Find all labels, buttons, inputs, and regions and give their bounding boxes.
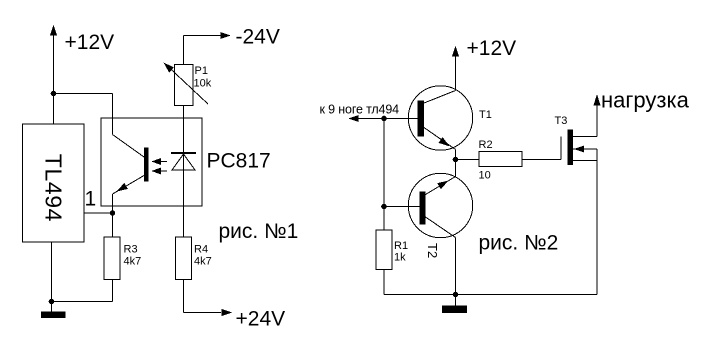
- arrowhead +12V up (left): [50, 25, 57, 36]
- transistor T2 circle: [408, 173, 472, 237]
- resistor R2 body: [479, 152, 522, 167]
- T1 emitter arrowhead: [439, 137, 450, 146]
- phototransistor collector diagonal: [113, 135, 145, 158]
- MOSFET gate bar: [560, 137, 562, 160]
- wire source stub: [573, 160, 597, 162]
- wire drain to load vertical: [596, 100, 598, 137]
- wire LED vertical P1 bottom to R4 top: [183, 106, 185, 238]
- svg-text:T3: T3: [555, 115, 568, 127]
- svg-text:рис. №2: рис. №2: [479, 232, 559, 255]
- svg-text:4k7: 4k7: [124, 256, 142, 268]
- wire junction to optocoupler collector horizontal: [54, 93, 113, 95]
- svg-text:TL494: TL494: [41, 154, 67, 222]
- TL494 box: [23, 124, 85, 242]
- potentiometer P1 body: [175, 65, 194, 106]
- wire TL494 pin1 horizontal: [84, 212, 113, 214]
- phototransistor emitter arrowhead: [117, 183, 128, 192]
- svg-text:T2: T2: [425, 243, 440, 258]
- wire R3 bottom: [112, 280, 114, 302]
- wire bottom horizontal: [384, 294, 597, 296]
- svg-text:+12V: +12V: [467, 37, 517, 60]
- phototransistor emitter diagonal: [113, 176, 145, 195]
- wire P1 top vertical: [183, 36, 185, 65]
- resistor R4 body: [176, 237, 192, 280]
- junction node TL494 bottom/R3: [49, 299, 55, 305]
- LED triangle: [172, 154, 195, 170]
- wire bottom horizontal to ground node: [52, 301, 113, 303]
- MOSFET channel bar: [568, 130, 574, 166]
- wire node to R2: [456, 159, 480, 161]
- LED light arrow upper line: [152, 161, 167, 163]
- wire T2 base horizontal: [384, 206, 420, 208]
- wire collector drop vertical: [112, 94, 114, 135]
- wire +24V horizontal: [184, 312, 222, 314]
- wire R1 top: [383, 207, 385, 231]
- svg-text:R2: R2: [479, 139, 493, 151]
- wire ground stub right: [455, 295, 457, 306]
- wire base link vertical T1-T2: [383, 119, 385, 207]
- svg-text:-24V: -24V: [236, 26, 280, 49]
- LED light arrow lower line: [152, 170, 167, 172]
- wire R2 to gate: [522, 159, 561, 161]
- wire T1 base horizontal: [349, 118, 418, 120]
- T2 collector diagonal: [426, 217, 456, 238]
- resistor R1 body: [376, 230, 392, 270]
- T1 emitter diagonal: [424, 128, 456, 150]
- svg-text:PC817: PC817: [207, 150, 271, 173]
- svg-text:4k7: 4k7: [194, 256, 212, 268]
- P1 wiper arrowhead: [164, 63, 175, 73]
- junction node ground: [453, 292, 459, 298]
- wire T2 emitter vertical: [455, 160, 457, 177]
- svg-text:+12V: +12V: [65, 31, 115, 54]
- wire source down right side: [596, 149, 598, 295]
- T2 emitter diagonal: [426, 177, 456, 195]
- arrowhead load up: [594, 94, 601, 106]
- wire R3 top: [112, 213, 114, 237]
- svg-text:к 9 ноге тл494: к 9 ноге тл494: [320, 103, 400, 117]
- light arrowhead lower: [152, 168, 162, 175]
- wire drain stub: [573, 136, 597, 138]
- junction node T2 base / R1: [381, 204, 387, 210]
- MOSFET body arrowhead: [574, 146, 584, 153]
- svg-text:R3: R3: [124, 244, 138, 256]
- wire +12V vertical to TL494 top: [53, 30, 55, 124]
- junction node +12V/TL494: [51, 91, 57, 97]
- arrowhead -24V right: [221, 32, 231, 39]
- T1 base bar: [418, 101, 425, 137]
- light arrowhead upper: [152, 158, 162, 165]
- ground symbol right: [442, 306, 467, 314]
- wire T2 collector vertical: [455, 238, 457, 295]
- phototransistor emitter wire to pin1 node: [112, 194, 114, 213]
- svg-text:1: 1: [85, 188, 97, 211]
- svg-text:нагрузка: нагрузка: [601, 88, 690, 113]
- svg-text:P1: P1: [195, 65, 208, 77]
- arrowhead to TL494 pin9 left: [348, 115, 359, 122]
- junction node pin1/emitter/R3: [110, 210, 116, 216]
- arrowhead +24V right: [222, 309, 233, 316]
- potentiometer P1 wiper diagonal: [168, 67, 208, 105]
- junction node T1 base: [381, 116, 387, 122]
- svg-text:10k: 10k: [194, 78, 212, 90]
- phototransistor base bar: [144, 148, 149, 182]
- wire R4 bottom: [183, 280, 185, 313]
- svg-text:+24V: +24V: [236, 308, 286, 331]
- svg-text:1k: 1k: [394, 252, 406, 264]
- wire -24V horizontal: [184, 35, 222, 37]
- arrowhead +12V up (right): [452, 46, 459, 57]
- svg-text:10: 10: [479, 170, 491, 182]
- resistor R3 body: [104, 237, 120, 280]
- LED cathode bar: [171, 152, 196, 154]
- junction node emitters / R2: [453, 157, 459, 163]
- wire T1 emitter to node: [455, 150, 457, 160]
- wire +12V to T1 collector: [455, 51, 457, 91]
- svg-text:T1: T1: [479, 109, 492, 121]
- PC817 box: [101, 118, 202, 206]
- T2 base bar: [420, 192, 426, 225]
- wire TL494 bottom to ground: [51, 242, 53, 312]
- svg-text:R4: R4: [194, 244, 208, 256]
- T1 collector diagonal: [424, 91, 456, 104]
- svg-text:R1: R1: [394, 240, 408, 252]
- ground symbol left: [41, 312, 66, 319]
- wire body stub: [573, 148, 597, 150]
- wire R1 bottom: [383, 270, 385, 295]
- svg-text:рис. №1: рис. №1: [219, 220, 299, 243]
- transistor T1 circle: [408, 86, 472, 150]
- T2 emitter arrowhead: [437, 181, 448, 190]
